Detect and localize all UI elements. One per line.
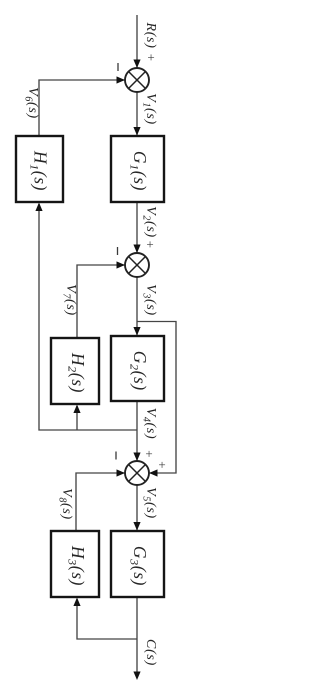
- svg-text:+: +: [145, 446, 152, 461]
- svg-text:C(s): C(s): [143, 639, 158, 666]
- svg-text:V8(s): V8(s): [57, 488, 74, 520]
- svg-text:G3(s): G3(s): [127, 546, 150, 586]
- svg-text:V6(s): V6(s): [23, 87, 40, 119]
- svg-text:+: +: [158, 457, 165, 472]
- svg-text:R(s): R(s): [143, 21, 158, 48]
- svg-text:V4(s): V4(s): [141, 408, 158, 440]
- svg-text:G2(s): G2(s): [127, 351, 150, 391]
- svg-text:+: +: [146, 237, 153, 252]
- svg-text:G1(s): G1(s): [127, 151, 150, 191]
- svg-text:V1(s): V1(s): [141, 93, 158, 125]
- svg-text:H1(s): H1(s): [28, 150, 51, 191]
- svg-text:H2(s): H2(s): [65, 352, 88, 393]
- svg-text:V2(s): V2(s): [141, 206, 158, 238]
- svg-text:+: +: [147, 50, 154, 65]
- svg-text:H3(s): H3(s): [65, 545, 88, 586]
- svg-text:V3(s): V3(s): [141, 284, 158, 316]
- svg-text:V5(s): V5(s): [141, 487, 158, 519]
- svg-text:V7(s): V7(s): [61, 284, 78, 316]
